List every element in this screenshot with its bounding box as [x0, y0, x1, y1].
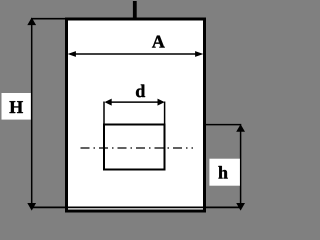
label d — [136, 85, 145, 98]
dimension H: bottom extension line (long, to h arrow) — [31, 206, 241, 208]
dimension d: extension lines down to inner rect — [103, 102, 105, 126]
tick mark at top — [133, 1, 137, 18]
label H white box — [2, 93, 31, 120]
dimension H: top extension line — [31, 18, 66, 20]
label A — [152, 36, 165, 48]
label h white box — [209, 159, 240, 186]
dimension A arrow line — [68, 51, 204, 57]
outer rectangle (part outline) — [67, 19, 205, 211]
inner rectangle — [104, 125, 165, 170]
dimension H vertical arrow — [27, 18, 36, 211]
dimension h vertical arrow — [236, 124, 245, 210]
dimension d arrow — [105, 99, 165, 106]
centerline (dash-dot) — [81, 147, 194, 149]
dimension h: top extension line — [204, 124, 241, 126]
